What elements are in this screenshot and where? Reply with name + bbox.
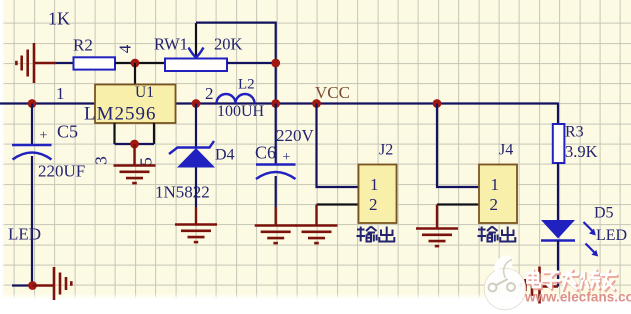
svg-text:1: 1: [56, 84, 65, 103]
node junction VCC/J2: [312, 99, 321, 108]
svg-text:LM2596: LM2596: [84, 104, 157, 125]
wire feedback top: [196, 23, 276, 104]
wire J4 pin2: [437, 203, 479, 205]
svg-text:1: 1: [491, 175, 500, 194]
svg-text:D4: D4: [215, 147, 235, 164]
wire R2 to RW1: [115, 62, 165, 64]
node junction D4: [192, 99, 201, 108]
inductor L2 100UH: [217, 77, 265, 121]
IC U1 LM2596: [56, 84, 214, 125]
svg-text:+: +: [40, 129, 48, 144]
wire D5 down: [557, 241, 559, 287]
ground GND top-left (pointing left): [16, 43, 56, 83]
capacitor C6 220V: [255, 104, 315, 208]
connector J4: [479, 142, 517, 224]
ground under C6: [255, 207, 297, 243]
watermark logo circle: [484, 255, 526, 309]
wire J2 pin1: [317, 104, 359, 188]
svg-text:220UF: 220UF: [38, 162, 85, 181]
svg-text:www.elecfans.com: www.elecfans.com: [524, 290, 631, 305]
svg-text:C6: C6: [255, 143, 276, 163]
wire J4 pin1: [437, 104, 479, 188]
svg-text:20K: 20K: [214, 35, 243, 54]
svg-text:220V: 220V: [276, 126, 315, 145]
wire ground to R2: [56, 62, 73, 64]
svg-text:RW1: RW1: [154, 35, 188, 54]
node junction feedback/C6: [271, 99, 280, 108]
wire U1 pin 4: [116, 44, 136, 84]
svg-text:4: 4: [116, 44, 135, 53]
svg-text:1N5822: 1N5822: [155, 183, 210, 202]
node junction C5: [28, 99, 37, 108]
svg-text:2: 2: [369, 195, 378, 214]
node junction J4: [433, 99, 442, 108]
svg-text:2: 2: [205, 84, 214, 103]
svg-text:3: 3: [92, 156, 111, 165]
node junction RW1 right: [271, 59, 280, 68]
wire C5 down to bottom gnd: [12, 156, 32, 286]
svg-text:+: +: [283, 150, 291, 165]
svg-text:L2: L2: [238, 77, 255, 93]
power VCC label: [315, 83, 350, 102]
connector J2: [359, 142, 397, 224]
wire U1 bottom pins 3 and 5: [92, 123, 156, 166]
ground bottom-left (pointing right): [33, 267, 72, 300]
svg-text:R3: R3: [565, 124, 584, 141]
ground under U1: [114, 144, 156, 183]
svg-text:1K: 1K: [48, 9, 70, 29]
potentiometer RW1 20K: [154, 23, 243, 71]
resistor R2: [48, 9, 115, 70]
watermark url: [524, 290, 631, 305]
svg-text:J2: J2: [379, 142, 393, 159]
ground J4: [416, 205, 458, 247]
svg-text:J4: J4: [499, 142, 513, 159]
ground bottom-right (pointing left): [521, 267, 558, 304]
svg-text:LED: LED: [8, 225, 41, 244]
LED D5: [541, 205, 627, 257]
svg-text:LED: LED: [596, 227, 627, 244]
node junction pin4: [131, 59, 140, 68]
svg-text:3.9K: 3.9K: [565, 142, 598, 161]
text 输出 under J4: [478, 227, 516, 242]
text 输出 under J2: [357, 227, 395, 242]
ground under D4: [175, 207, 217, 242]
svg-text:1: 1: [370, 175, 379, 194]
svg-text:R2: R2: [73, 36, 93, 55]
svg-text:U1: U1: [135, 84, 154, 101]
wire main VOUT rail y=103.5: [0, 103, 558, 125]
node junction U1 gnd: [130, 140, 139, 149]
svg-text:2: 2: [490, 195, 499, 214]
svg-text:C5: C5: [57, 122, 78, 142]
svg-text:VCC: VCC: [315, 83, 350, 102]
svg-text:D5: D5: [594, 205, 614, 222]
watermark text dianzifashaoyou: [527, 269, 617, 290]
wire J2 pin2: [317, 203, 359, 205]
text LED left: [8, 225, 41, 244]
wire RW1 right to feedback node: [227, 62, 276, 64]
svg-text:100UH: 100UH: [217, 103, 265, 120]
resistor R3 3.9K: [553, 124, 598, 164]
wire R3 to D5: [557, 163, 559, 220]
diode D4 1N5822: [155, 104, 235, 208]
ground J2: [296, 205, 338, 244]
capacitor C5 220UF: [12, 104, 85, 181]
node junction bottom-left: [28, 281, 37, 290]
